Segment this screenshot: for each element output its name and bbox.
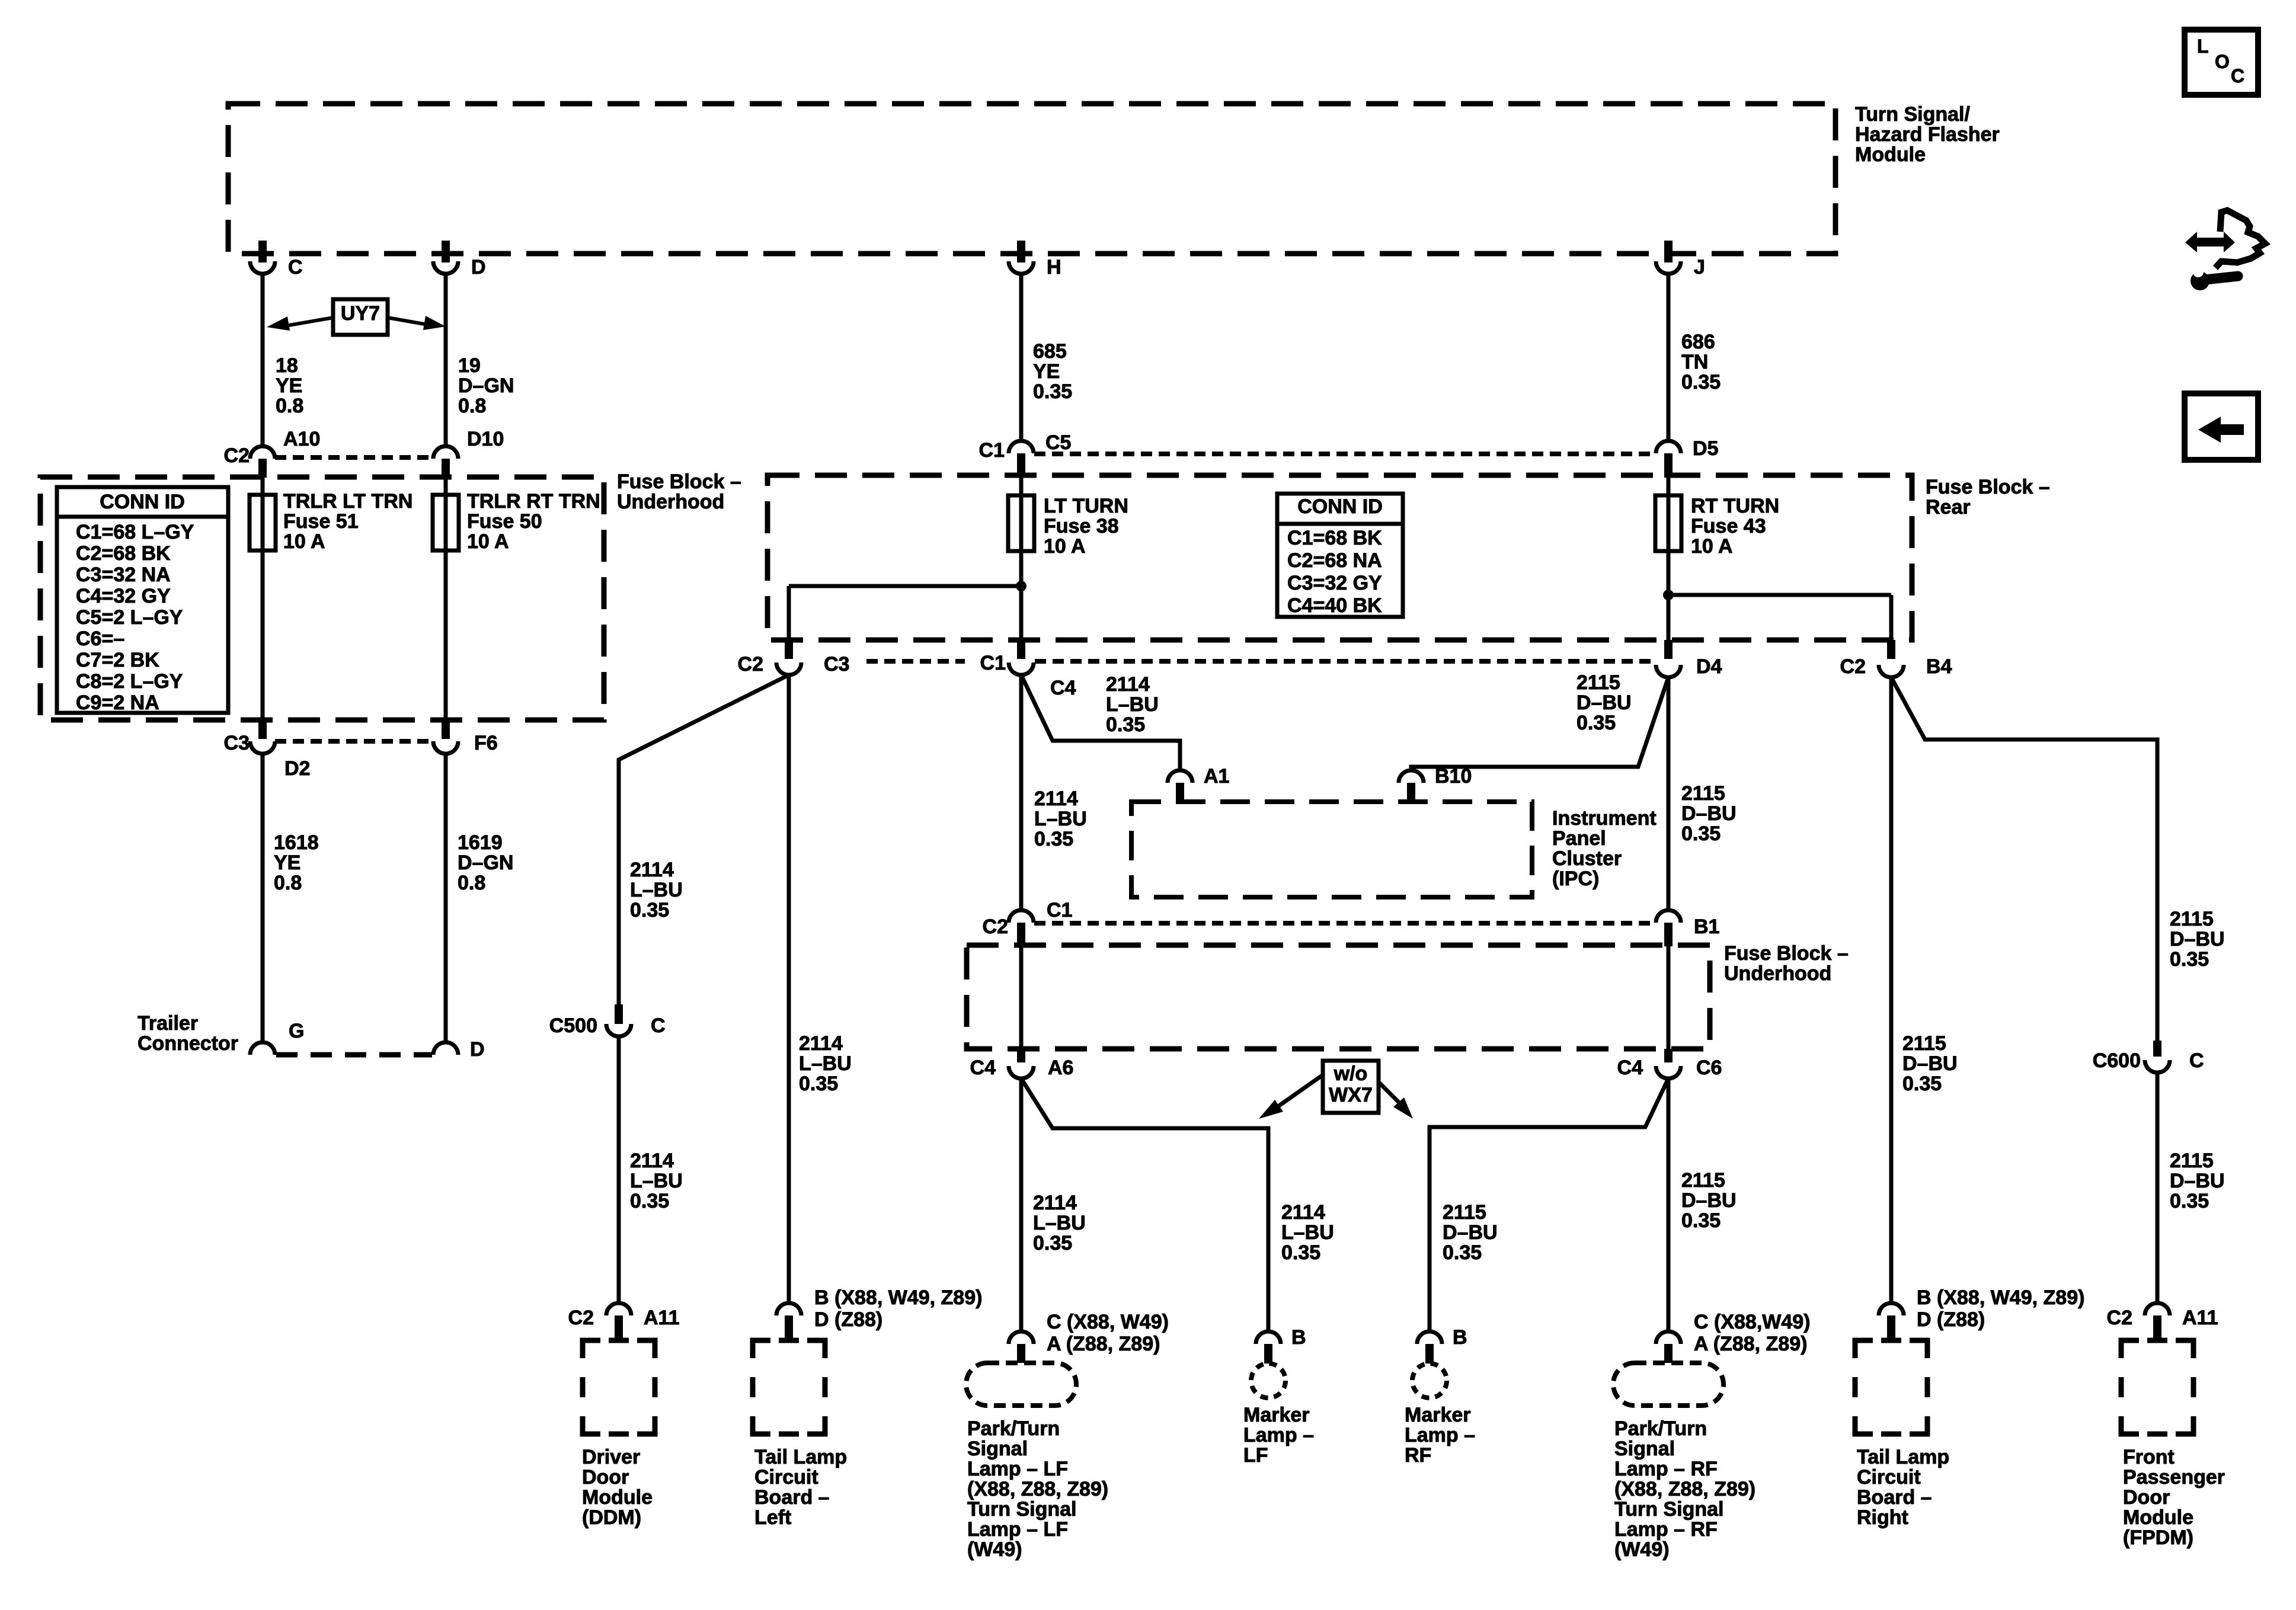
- pin D10 dome: [433, 446, 458, 459]
- w/o WX7 option box: [1323, 1061, 1379, 1113]
- svg-text:D–BU: D–BU: [1681, 802, 1737, 825]
- svg-text:C1=68 BK: C1=68 BK: [1287, 527, 1382, 549]
- park/turn RF pin labels: [1694, 1311, 1811, 1355]
- svg-text:Board –: Board –: [1857, 1486, 1932, 1509]
- pin D10 label: [467, 428, 504, 450]
- connector C2 label: [224, 444, 250, 467]
- Fuse Block - Rear box: [768, 475, 1912, 640]
- svg-text:L–BU: L–BU: [630, 879, 683, 901]
- svg-text:C2=68 NA: C2=68 NA: [1287, 549, 1382, 572]
- svg-text:Module: Module: [582, 1486, 653, 1509]
- pin D5 stub: [1664, 453, 1673, 478]
- svg-text:D–BU: D–BU: [2170, 928, 2225, 950]
- svg-text:D5: D5: [1693, 437, 1718, 460]
- Turn Signal/Hazard Flasher Module label: [1855, 103, 2000, 166]
- svg-text:L–BU: L–BU: [1281, 1221, 1334, 1244]
- connector C500 label: [549, 1014, 597, 1037]
- svg-text:UY7: UY7: [341, 302, 380, 325]
- pin A1 label: [1204, 765, 1229, 788]
- circuit label 2115 D-BU 0.35 (park RF): [1681, 1169, 1737, 1232]
- UY7 arrow right: [388, 316, 446, 330]
- connector C2 pin A10 dome: [250, 446, 275, 459]
- Park/Turn Signal Lamp RF label: [1614, 1417, 1755, 1561]
- svg-text:C2: C2: [568, 1307, 594, 1329]
- svg-text:(DDM): (DDM): [582, 1506, 641, 1529]
- svg-text:Driver: Driver: [582, 1446, 640, 1468]
- trailer connector dashed line: [276, 1052, 432, 1058]
- connector C1 label (row2): [980, 652, 1006, 674]
- wire inside rear block left: [1019, 478, 1024, 640]
- svg-text:Lamp – LF: Lamp – LF: [967, 1518, 1068, 1541]
- svg-text:0.35: 0.35: [1681, 822, 1721, 845]
- svg-text:B10: B10: [1435, 765, 1472, 788]
- connector C500 cup: [606, 1024, 631, 1036]
- wire 2114 main segment: [1019, 675, 1024, 911]
- Fuse Block - Underhood box: [40, 477, 604, 720]
- tail lamp left pin dome: [776, 1303, 801, 1315]
- wire 2115 main segment: [1667, 677, 1671, 911]
- svg-text:0.35: 0.35: [1902, 1073, 1942, 1095]
- circuit label 2115 D-BU 0.35 (marker RF): [1443, 1201, 1498, 1264]
- pin C label (C500): [651, 1014, 666, 1037]
- svg-text:10 A: 10 A: [467, 530, 509, 553]
- IPC pin B10 dome: [1399, 770, 1424, 783]
- svg-text:0.8: 0.8: [274, 872, 302, 894]
- svg-text:C600: C600: [2093, 1049, 2141, 1072]
- circuit label 2115 D-BU 0.35 (FPDM upper): [2170, 908, 2225, 971]
- svg-text:D–GN: D–GN: [458, 852, 513, 874]
- wire A6 to marker LF branch: [1021, 1078, 1268, 1331]
- pin A10 label: [283, 428, 320, 450]
- CONN ID table (rear): [1277, 494, 1403, 617]
- circuit label 2114 L-BU 0.35 (marker LF): [1281, 1201, 1334, 1264]
- svg-text:C3=32 NA: C3=32 NA: [76, 564, 171, 586]
- wire through fuse block left 2: [444, 478, 448, 720]
- fuse TRLR RT TRN Fuse 50: [433, 495, 459, 550]
- marker lamp LF pin dome: [1256, 1331, 1281, 1344]
- svg-text:C (X88, W49): C (X88, W49): [1047, 1311, 1169, 1333]
- Tail Lamp Circuit Board Right box: [1855, 1340, 1927, 1434]
- svg-text:(W49): (W49): [1614, 1538, 1670, 1561]
- svg-text:Module: Module: [1855, 143, 1926, 166]
- svg-text:1619: 1619: [458, 831, 503, 854]
- svg-text:2114: 2114: [1281, 1201, 1325, 1224]
- svg-text:C4=40 BK: C4=40 BK: [1287, 594, 1382, 617]
- pin D5 label: [1693, 437, 1718, 460]
- marker lamp RF pin label: [1453, 1326, 1467, 1349]
- svg-text:Tail Lamp: Tail Lamp: [1857, 1446, 1949, 1468]
- svg-text:C3: C3: [824, 653, 849, 676]
- svg-text:0.35: 0.35: [630, 899, 669, 921]
- connector C4 pin A6 cup: [1009, 1066, 1034, 1078]
- svg-text:2115: 2115: [1681, 782, 1725, 805]
- park/turn LF pin dome: [1009, 1331, 1034, 1344]
- connector C3 label: [224, 732, 250, 754]
- svg-text:Park/Turn: Park/Turn: [967, 1417, 1060, 1440]
- svg-text:C4=32 GY: C4=32 GY: [76, 585, 171, 607]
- wire inside underhood2 right: [1667, 946, 1671, 1049]
- tail lamp left pin labels: [814, 1286, 982, 1331]
- svg-text:(X88, Z88, Z89): (X88, Z88, Z89): [967, 1478, 1108, 1500]
- svg-text:L–BU: L–BU: [1034, 808, 1087, 830]
- Park/Turn Signal Lamp LF shape: [966, 1363, 1076, 1406]
- fuse RT TURN Fuse 43: [1655, 495, 1681, 551]
- svg-text:D10: D10: [467, 428, 504, 450]
- Turn Signal/Hazard Flasher Module box: [228, 104, 1835, 254]
- UY7 option box: [333, 299, 388, 335]
- svg-text:2115: 2115: [1443, 1201, 1486, 1224]
- Fuse Block - Rear label: [1926, 476, 2050, 518]
- svg-text:Hazard Flasher: Hazard Flasher: [1855, 123, 2000, 146]
- diagnostic double-arrow wrench icon: [2185, 210, 2265, 290]
- svg-text:Marker: Marker: [1243, 1404, 1310, 1426]
- svg-text:CONN ID: CONN ID: [100, 491, 185, 513]
- tail lamp right pin dome: [1879, 1303, 1904, 1315]
- junction dot left turn: [1016, 581, 1027, 591]
- svg-text:B (X88, W49, Z89): B (X88, W49, Z89): [814, 1286, 982, 1309]
- svg-text:RF: RF: [1405, 1444, 1431, 1467]
- pin C4 row stub: [1017, 640, 1025, 659]
- circuit label 2114 L-BU 0.35 (tail left): [799, 1032, 852, 1095]
- svg-text:C1: C1: [1047, 899, 1072, 921]
- svg-text:(W49): (W49): [967, 1538, 1022, 1561]
- svg-text:Trailer: Trailer: [137, 1012, 198, 1035]
- tail lamp right pin stub: [1887, 1315, 1895, 1340]
- svg-text:Turn Signal: Turn Signal: [1614, 1498, 1723, 1521]
- marker lamp LF pin label: [1291, 1326, 1306, 1349]
- Park/Turn Signal Lamp RF shape: [1613, 1363, 1723, 1406]
- trailer pin D label: [470, 1038, 485, 1061]
- connector pin C cup: [250, 261, 275, 274]
- Marker Lamp RF shape: [1412, 1363, 1447, 1398]
- svg-text:0.35: 0.35: [1576, 712, 1616, 734]
- svg-text:0.35: 0.35: [630, 1190, 669, 1212]
- svg-text:L: L: [2197, 36, 2209, 57]
- pin B1 label: [1694, 916, 1719, 938]
- svg-text:C4: C4: [1050, 677, 1076, 699]
- svg-text:D: D: [470, 1038, 485, 1061]
- svg-text:Circuit: Circuit: [1857, 1466, 1921, 1489]
- marker lamp RF pin dome: [1417, 1331, 1442, 1344]
- svg-text:Turn Signal/: Turn Signal/: [1855, 103, 1970, 126]
- pin A10 stub: [258, 459, 267, 478]
- connector pin D4 cup: [1656, 665, 1681, 677]
- svg-text:TRLR LT TRN: TRLR LT TRN: [283, 490, 412, 513]
- svg-text:WX7: WX7: [1329, 1084, 1373, 1106]
- CONN ID table (underhood): [57, 487, 228, 714]
- svg-text:C: C: [651, 1014, 666, 1037]
- UY7 arrow left: [267, 316, 333, 331]
- LOC location icon: [2185, 30, 2258, 95]
- svg-text:LF: LF: [1243, 1444, 1268, 1467]
- svg-text:Rear: Rear: [1926, 496, 1971, 518]
- pin B1 stub: [1664, 923, 1673, 946]
- fuse LT TURN Fuse 38: [1008, 495, 1034, 551]
- svg-text:Door: Door: [582, 1466, 629, 1489]
- svg-text:Board –: Board –: [754, 1486, 830, 1509]
- pin B10 stub: [1407, 783, 1415, 802]
- connector C2 pin C1 dome: [1009, 910, 1034, 923]
- tail lamp left pin stub: [785, 1315, 793, 1340]
- svg-text:2115: 2115: [2170, 1150, 2214, 1172]
- svg-text:Underhood: Underhood: [1724, 962, 1831, 985]
- wire module pin H stub: [1017, 241, 1025, 263]
- pin A6 stub: [1017, 1049, 1025, 1062]
- connector C600 label: [2093, 1049, 2141, 1072]
- svg-text:2114: 2114: [799, 1032, 843, 1055]
- svg-text:Fuse Block –: Fuse Block –: [617, 470, 741, 493]
- svg-text:Signal: Signal: [1614, 1438, 1675, 1460]
- svg-text:2114: 2114: [630, 1150, 674, 1172]
- connector C2 label (rear C3): [738, 653, 763, 676]
- svg-text:Passenger: Passenger: [2123, 1466, 2225, 1489]
- svg-text:0.35: 0.35: [1033, 1232, 1072, 1254]
- svg-text:C8=2 L–GY: C8=2 L–GY: [76, 670, 183, 693]
- svg-text:J: J: [1694, 256, 1705, 279]
- svg-text:Instrument: Instrument: [1552, 807, 1657, 830]
- pin B10 label: [1435, 765, 1472, 788]
- svg-text:TN: TN: [1681, 351, 1708, 373]
- wire 1619 D-GN segment: [444, 754, 448, 1042]
- Marker Lamp RF label: [1405, 1404, 1475, 1467]
- svg-text:Fuse 38: Fuse 38: [1044, 515, 1119, 537]
- back arrow icon: [2185, 393, 2258, 460]
- pin C3-D2 stub: [258, 720, 267, 739]
- wire 1618 YE segment: [261, 754, 265, 1042]
- circuit label 18 YE 0.8: [276, 354, 303, 417]
- wire module pin D stub: [442, 241, 450, 263]
- circuit label 2114 L-BU 0.35 (main): [1034, 788, 1087, 850]
- circuit label 1618 YE 0.8: [274, 831, 319, 894]
- Trailer Connector label: [137, 1012, 238, 1055]
- svg-text:B4: B4: [1926, 655, 1952, 678]
- Driver Door Module label: [582, 1446, 653, 1529]
- IPC pin A1 dome: [1168, 770, 1192, 783]
- park/turn LF pin labels: [1047, 1311, 1169, 1355]
- circuit label 2115 D-BU 0.35 (FPDM lower): [2170, 1150, 2225, 1212]
- svg-text:2115: 2115: [2170, 908, 2214, 930]
- Marker Lamp LF label: [1243, 1404, 1314, 1467]
- svg-text:Door: Door: [2123, 1486, 2170, 1509]
- connector C3 pin D2 cup: [250, 741, 275, 754]
- svg-text:0.8: 0.8: [458, 872, 485, 894]
- svg-text:TRLR RT TRN: TRLR RT TRN: [467, 490, 600, 513]
- svg-text:D–BU: D–BU: [1443, 1221, 1498, 1244]
- wire 19 D-GN segment: [444, 274, 448, 446]
- marker lamp RF pin stub: [1425, 1344, 1434, 1363]
- Tail Lamp Circuit Board Left box: [753, 1340, 825, 1434]
- svg-text:A (Z88, Z89): A (Z88, Z89): [1694, 1333, 1807, 1355]
- connector C4 label (C6): [1617, 1057, 1643, 1079]
- connector C2 pin C3 cup: [776, 662, 801, 675]
- svg-text:0.35: 0.35: [799, 1073, 838, 1095]
- FPDM connector labels: [2107, 1307, 2218, 1329]
- FPDM pin stub: [2153, 1315, 2161, 1340]
- svg-text:B1: B1: [1694, 916, 1719, 938]
- svg-text:(FPDM): (FPDM): [2123, 1526, 2193, 1549]
- svg-text:C (X88,W49): C (X88,W49): [1694, 1311, 1811, 1333]
- pin G label: [289, 1020, 304, 1042]
- svg-text:0.35: 0.35: [1281, 1241, 1320, 1264]
- svg-text:2114: 2114: [1106, 673, 1150, 696]
- pin C6 stub: [1664, 1049, 1673, 1062]
- svg-text:C1=68 L–GY: C1=68 L–GY: [76, 521, 194, 543]
- svg-text:C2: C2: [224, 444, 250, 467]
- svg-text:L–BU: L–BU: [799, 1052, 852, 1075]
- svg-text:L–BU: L–BU: [1106, 693, 1159, 716]
- connector C4 label (A6): [970, 1057, 996, 1079]
- svg-text:Fuse 50: Fuse 50: [467, 510, 542, 533]
- svg-text:C6: C6: [1696, 1057, 1722, 1079]
- fuse 51 label: [283, 490, 412, 553]
- wire 685 YE segment: [1019, 274, 1024, 441]
- svg-text:C6=–: C6=–: [76, 628, 124, 650]
- svg-text:2115: 2115: [1902, 1032, 1946, 1055]
- svg-text:19: 19: [458, 354, 481, 377]
- Driver Door Module box: [583, 1340, 655, 1434]
- wire C3 leg down: [787, 586, 791, 640]
- svg-text:A1: A1: [1204, 765, 1229, 788]
- svg-text:Left: Left: [754, 1506, 791, 1529]
- pin F6 label: [474, 732, 498, 754]
- svg-text:C4: C4: [1617, 1057, 1643, 1079]
- circuit label 2114 L-BU 0.35 (DDM upper): [630, 859, 683, 921]
- w/o WX7 arrow left: [1259, 1075, 1323, 1119]
- svg-text:Turn Signal: Turn Signal: [967, 1498, 1076, 1521]
- Marker Lamp LF shape: [1251, 1363, 1285, 1398]
- svg-text:C5=2 L–GY: C5=2 L–GY: [76, 606, 183, 629]
- svg-text:1618: 1618: [274, 831, 319, 854]
- svg-text:C4: C4: [970, 1057, 996, 1079]
- DDM connector labels: [568, 1307, 680, 1329]
- connector C500 stub: [615, 1004, 623, 1024]
- connector pin J cup: [1656, 261, 1681, 274]
- wire junction to C3 leg: [789, 584, 1021, 588]
- w/o WX7 arrow right: [1379, 1082, 1413, 1119]
- wire park-turn LF segment: [1019, 1078, 1024, 1331]
- svg-text:Marker: Marker: [1405, 1404, 1471, 1426]
- connector row C1-B1 dashed line: [1034, 921, 1655, 926]
- connector pin H cup: [1009, 261, 1034, 274]
- pin D4 label: [1696, 655, 1722, 678]
- svg-text:0.35: 0.35: [1681, 371, 1721, 393]
- pin B4 label: [1926, 655, 1952, 678]
- svg-text:C9=2 NA: C9=2 NA: [76, 692, 159, 714]
- Front Passenger Door Module label: [2123, 1446, 2225, 1549]
- FPDM pin A11 dome: [2145, 1303, 2170, 1315]
- Tail Lamp Circuit Board Right label: [1857, 1446, 1949, 1529]
- svg-text:Park/Turn: Park/Turn: [1614, 1417, 1707, 1440]
- svg-text:C7=2 BK: C7=2 BK: [76, 649, 159, 671]
- park/turn RF pin stub: [1664, 1344, 1673, 1363]
- wire tail lamp right segment: [1889, 677, 1894, 1303]
- svg-text:D–BU: D–BU: [1902, 1052, 1958, 1075]
- svg-text:F6: F6: [474, 732, 498, 754]
- connector row C3-C4-D4 dashed line: [866, 659, 1655, 664]
- fuse 38 label: [1044, 495, 1128, 558]
- wire through fuse block left: [261, 478, 265, 720]
- svg-text:686: 686: [1681, 331, 1715, 353]
- wire 686 TN segment: [1667, 274, 1671, 441]
- pin D5 dome: [1656, 441, 1681, 453]
- svg-text:C: C: [2189, 1049, 2204, 1072]
- svg-text:RT TURN: RT TURN: [1691, 495, 1779, 517]
- wire module pin C stub: [258, 241, 267, 263]
- connector C2 pin B4 cup: [1879, 665, 1904, 677]
- pin C3 row stub: [785, 640, 793, 659]
- Park/Turn Signal Lamp LF label: [967, 1417, 1108, 1561]
- connector C1 label: [979, 439, 1005, 462]
- wire C4 to A1 branch: [1021, 675, 1180, 770]
- svg-text:Fuse 51: Fuse 51: [283, 510, 359, 533]
- svg-text:B: B: [1291, 1326, 1306, 1349]
- tail lamp right pin labels: [1917, 1286, 2084, 1331]
- svg-text:D2: D2: [284, 757, 310, 780]
- svg-text:0.8: 0.8: [458, 395, 486, 417]
- svg-text:G: G: [289, 1020, 304, 1042]
- pin J label: [1694, 256, 1705, 279]
- svg-text:Underhood: Underhood: [617, 491, 724, 513]
- svg-text:C2: C2: [2107, 1307, 2132, 1329]
- svg-text:Fuse Block –: Fuse Block –: [1724, 942, 1849, 965]
- connector C600 stub: [2153, 1041, 2161, 1057]
- pin C5 stub: [1017, 453, 1025, 478]
- svg-text:A11: A11: [644, 1307, 680, 1329]
- marker lamp LF pin stub: [1264, 1344, 1272, 1363]
- wire park-turn RF segment: [1667, 1078, 1671, 1331]
- svg-text:C2=68 BK: C2=68 BK: [76, 542, 171, 565]
- pin F6 stub: [442, 720, 450, 739]
- connector C1 pin C4 cup: [1009, 662, 1034, 675]
- fuse 50 label: [467, 490, 600, 553]
- pin D label: [471, 256, 486, 279]
- svg-text:Lamp – RF: Lamp – RF: [1614, 1518, 1718, 1541]
- svg-text:Lamp – RF: Lamp – RF: [1614, 1458, 1718, 1480]
- wire B4 leg down: [1889, 595, 1894, 640]
- svg-text:0.35: 0.35: [1106, 713, 1145, 736]
- wire C3 to C500 branch: [619, 675, 789, 1004]
- svg-text:2114: 2114: [1034, 788, 1078, 810]
- wire D4 to B10 branch: [1411, 677, 1668, 770]
- wire inside underhood2 left: [1019, 946, 1024, 1049]
- svg-text:B (X88, W49, Z89): B (X88, W49, Z89): [1917, 1286, 2084, 1309]
- svg-text:C2: C2: [1840, 655, 1866, 678]
- park/turn LF pin stub: [1017, 1344, 1025, 1363]
- Fuse Block - Underhood 2 box: [967, 945, 1710, 1049]
- pin C3 label (rear): [824, 653, 849, 676]
- svg-text:Front: Front: [2123, 1446, 2175, 1468]
- svg-text:C1: C1: [980, 652, 1006, 674]
- svg-text:A10: A10: [283, 428, 320, 450]
- svg-text:0.35: 0.35: [2170, 948, 2209, 971]
- pin D2 label: [284, 757, 310, 780]
- svg-text:D (Z88): D (Z88): [1917, 1308, 1985, 1331]
- svg-text:C: C: [2231, 65, 2244, 87]
- circuit label 686 TN 0.35: [1681, 331, 1721, 393]
- connector C600 cup: [2145, 1060, 2170, 1073]
- wire 18 YE segment: [261, 274, 265, 446]
- svg-text:18: 18: [276, 354, 298, 377]
- circuit label 2114 L-BU 0.35 (DDM lower): [630, 1150, 683, 1212]
- svg-text:YE: YE: [1033, 360, 1060, 383]
- circuit label 2114 L-BU 0.35 (park LF): [1033, 1192, 1086, 1254]
- svg-text:C3=32 GY: C3=32 GY: [1287, 572, 1382, 594]
- svg-text:0.35: 0.35: [1681, 1209, 1721, 1232]
- svg-text:Cluster: Cluster: [1552, 847, 1622, 870]
- Instrument Panel Cluster box: [1131, 802, 1532, 897]
- trailer pin G dome: [250, 1042, 275, 1055]
- svg-text:w/o: w/o: [1334, 1062, 1368, 1085]
